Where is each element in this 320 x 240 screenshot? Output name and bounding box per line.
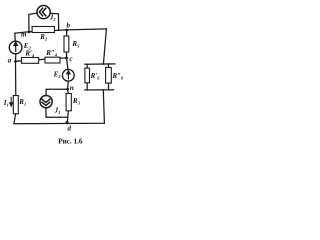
svg-text:a: a [8,57,12,65]
svg-text:R2: R2 [39,33,48,42]
svg-text:d: d [68,125,72,133]
svg-text:J2: J2 [49,13,57,22]
svg-text:R″4: R″4 [45,49,58,58]
svg-text:J3: J3 [54,106,62,115]
svg-text:R′4: R′4 [24,49,35,58]
svg-text:R″6: R″6 [112,72,125,81]
svg-text:m: m [21,31,27,39]
svg-text:R5: R5 [71,40,80,49]
svg-text:R1: R1 [18,98,26,107]
svg-text:b: b [67,22,71,30]
svg-text:R3: R3 [72,97,81,106]
svg-text:c: c [69,55,72,63]
svg-text:I1: I1 [3,99,9,108]
svg-text:Рис. 1.6: Рис. 1.6 [58,138,83,146]
svg-text:E3: E3 [53,70,62,79]
svg-text:R′6: R′6 [90,72,101,81]
svg-text:n: n [70,84,74,92]
